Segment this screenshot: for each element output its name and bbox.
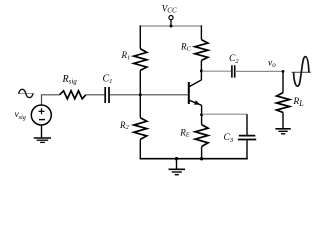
node ground junction: [175, 157, 178, 160]
top rail (VCC rail): [140, 25, 202, 27]
wire emitter down: [201, 105, 203, 124]
bottom rail: [140, 158, 248, 160]
ground (RL): [275, 129, 290, 134]
transistor Q1: [189, 80, 202, 106]
node emitter: [200, 113, 203, 116]
ground (source): [34, 138, 51, 142]
wire RC to collector: [200, 60, 202, 80]
wire RE to rail: [201, 147, 203, 160]
output sine waveform symbol: [292, 57, 312, 87]
ground (center): [169, 159, 186, 175]
resistor R2: [134, 118, 147, 140]
wire source to Rsig: [42, 95, 60, 105]
resistor RE: [195, 125, 208, 147]
VCC terminal: [169, 16, 173, 27]
wire Rsig to C1: [86, 94, 105, 96]
resistor RC: [195, 40, 208, 61]
resistor RL: [277, 93, 290, 113]
wire R1 to R2: [139, 70, 141, 117]
node collector: [200, 69, 203, 72]
node RE-rail junction: [200, 157, 203, 160]
wire vo to RL: [282, 71, 284, 92]
wire source to ground: [41, 125, 43, 138]
input sine waveform symbol: [18, 89, 35, 97]
svg-text:RL: RL: [292, 97, 304, 108]
resistor R1: [134, 49, 147, 71]
capacitor C2: [232, 65, 235, 77]
wire rail to RC: [200, 25, 202, 39]
node VCC rail junction: [170, 25, 173, 28]
capacitor C1: [105, 87, 109, 103]
wire C3 bottom to rail: [246, 140, 248, 160]
wire rail to R1: [139, 25, 141, 48]
wire emitter to C3: [202, 113, 247, 115]
wire RL to ground: [282, 112, 284, 128]
wire collector to C2: [202, 70, 231, 72]
resistor Rsig: [60, 91, 86, 99]
capacitor C3: [238, 136, 256, 140]
wire C2 to vo: [236, 70, 283, 72]
node base-divider junction: [139, 93, 142, 96]
voltage source vsig: [31, 105, 51, 125]
wire C1 to base: [110, 94, 188, 96]
wire C3 top: [246, 114, 248, 135]
node vo: [282, 70, 285, 73]
wire R2 to rail: [139, 139, 141, 159]
